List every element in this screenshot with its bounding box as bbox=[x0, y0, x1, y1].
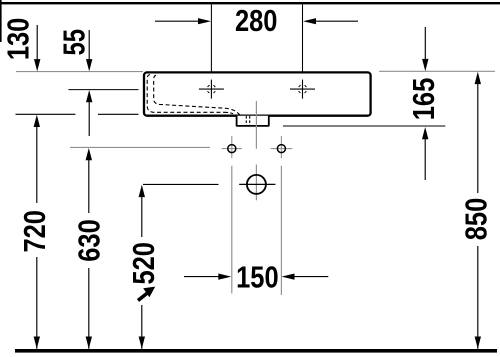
dimension 280 extension line right bbox=[302, 5, 304, 72]
wire: overflow leader line (520 reference) bbox=[143, 183, 219, 185]
wire: drain centerline (gray) bbox=[255, 101, 257, 149]
wire: rim extension line right (gray) bbox=[379, 70, 495, 72]
dimension 150 left arrow bbox=[184, 274, 231, 280]
drain hole hidden edges (dashed) bbox=[245, 116, 247, 125]
dimension 520 line with arrows bbox=[139, 185, 145, 349]
basin body U1 bbox=[144, 72, 371, 115]
svg-text:520: 520 bbox=[126, 242, 161, 285]
dimension 720 line with arrows bbox=[34, 115, 40, 349]
bowl bottom to drain (dashed) bbox=[225, 112, 237, 116]
dimension 130 top arrow bbox=[34, 25, 40, 71]
wire: fixing-hole extension line (630 reference, gray) bbox=[70, 146, 210, 148]
dimension 630 line with arrows bbox=[86, 148, 92, 349]
svg-text:850: 850 bbox=[458, 198, 493, 241]
left border fragment bbox=[0, 0, 2, 42]
dimension 850 line with arrows bbox=[475, 72, 481, 349]
svg-text:150: 150 bbox=[236, 260, 279, 295]
mounting direction arrow (diagonal) bbox=[138, 287, 155, 301]
faucet hole cross right bbox=[290, 80, 315, 99]
dimension 280 extension line left bbox=[210, 5, 212, 72]
svg-text:280: 280 bbox=[235, 3, 278, 38]
svg-text:165: 165 bbox=[406, 78, 441, 121]
bowl inner rim edge (dashed) bbox=[154, 75, 244, 123]
drain tab under basin bbox=[237, 116, 269, 126]
dimension 165 bottom arrow bbox=[422, 127, 428, 180]
wire: faucet-hole extension line (55 bottom reference) bbox=[68, 89, 138, 91]
svg-text:720: 720 bbox=[17, 210, 52, 253]
floor line bbox=[15, 349, 497, 353]
dimension 150 extension line right (gray) bbox=[280, 166, 282, 295]
fixing hole left circle bbox=[222, 136, 242, 158]
dimension 150 right arrow bbox=[282, 274, 329, 280]
faucet hole cross left bbox=[199, 80, 224, 99]
wire: basin bottom extension line (130/720 reference) bbox=[16, 113, 76, 115]
svg-text:630: 630 bbox=[72, 219, 107, 262]
dimension 150 extension line left (gray) bbox=[231, 166, 233, 294]
overflow hole circle bbox=[239, 165, 275, 201]
dimension 280 left arrow bbox=[155, 18, 211, 24]
wire: rim extension line left (gray) bbox=[16, 71, 143, 73]
dimension 280 right arrow bbox=[303, 18, 358, 24]
svg-text:130: 130 bbox=[1, 18, 36, 61]
wire: drain-bottom extension line (165 reference) bbox=[283, 125, 445, 127]
bowl inner wall (dashed) bbox=[147, 75, 225, 113]
dimension 55 top arrow bbox=[86, 30, 92, 71]
svg-text:55: 55 bbox=[57, 29, 92, 56]
dimension 55 bottom arrow bbox=[86, 90, 92, 136]
fixing hole right circle bbox=[271, 136, 293, 158]
dimension 165 top arrow bbox=[422, 27, 428, 71]
top border line bbox=[0, 2, 500, 4]
